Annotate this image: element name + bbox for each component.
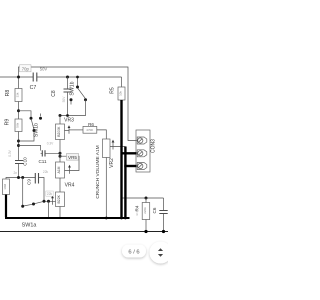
svg-text:C11: C11 — [38, 159, 47, 164]
value VR3 B200K — [57, 126, 61, 137]
value 2n at C10 — [14, 171, 18, 175]
label R9 — [5, 119, 11, 126]
thick bus wire 2 (VR2 wiper / CON3 pin3 to rail) — [124, 147, 136, 219]
svg-text:470K: 470K — [86, 128, 93, 132]
svg-text:VR5: VR5 — [68, 155, 77, 160]
svg-text:VR3: VR3 — [64, 118, 74, 124]
potentiometer VR5 wiper — [60, 156, 79, 174]
potentiometer VR3 body — [56, 116, 65, 140]
svg-text:C6: C6 — [152, 207, 157, 213]
wire net B (input rail y=77) — [0, 76, 122, 78]
page stepper button — [150, 242, 172, 264]
thick bus wire 1 (R5 bottom to rail, taps: pin2, net D) — [121, 100, 137, 218]
label R4 — [135, 205, 140, 211]
svg-text:R5: R5 — [110, 87, 116, 94]
svg-text:CON3: CON3 — [151, 139, 157, 153]
svg-text:0.3V: 0.3V — [47, 141, 54, 145]
resistor R7 (10M input) — [3, 179, 10, 195]
capacitor C10 — [15, 161, 24, 178]
potentiometer VR3 wiper — [65, 125, 84, 134]
svg-text:CRUNCH VOLUME A1M: CRUNCH VOLUME A1M — [95, 145, 101, 198]
svg-text:R4: R4 — [135, 205, 140, 211]
wire switch to VR3 top (y=115.5) — [60, 100, 86, 116]
svg-text:C9: C9 — [27, 179, 32, 185]
svg-text:VR4: VR4 — [65, 183, 75, 189]
label C6 — [152, 207, 157, 213]
svg-text:10k: 10k — [119, 91, 123, 96]
svg-text:22k: 22k — [43, 170, 49, 174]
wire dotB to C11 — [19, 146, 41, 151]
wire net C9 top (y=177.5) — [6, 178, 44, 202]
potentiometer VR2 wiper — [110, 140, 125, 150]
value R7 10M — [3, 183, 7, 189]
CON3 pin 1 — [137, 137, 147, 144]
svg-text:C7: C7 — [30, 85, 37, 91]
label C9 — [27, 179, 32, 185]
ground rail junction dots — [105, 217, 127, 220]
resistor R8 — [15, 77, 22, 119]
wire net D (y=198 to R4/C6) — [122, 197, 164, 199]
svg-text:SW1a: SW1a — [22, 223, 37, 229]
node junction VR3 top — [59, 114, 69, 117]
CON3 pin 3 — [137, 163, 147, 170]
svg-text:50V: 50V — [62, 96, 66, 103]
label C11 — [38, 159, 47, 164]
node junction SW1b-top stub — [76, 76, 79, 79]
ground return junction dots R4 / C6 — [144, 230, 165, 233]
value 4n7 at C6 — [135, 211, 139, 216]
potentiometer VR4 wiper — [44, 195, 56, 204]
svg-text:70p: 70p — [22, 67, 30, 72]
wire SW1a node to rail — [48, 201, 50, 218]
svg-text:A1M: A1M — [57, 166, 61, 173]
svg-text:10M: 10M — [3, 183, 7, 189]
node junction C11/pot column — [59, 152, 62, 155]
label SW1b middle — [34, 123, 40, 137]
value R9 1M — [16, 122, 20, 127]
page indicator pill 6/6 — [122, 245, 146, 258]
node junction R4 top — [145, 197, 148, 200]
node junction C8 top — [66, 76, 69, 79]
svg-text:SW1b: SW1b — [34, 123, 40, 137]
value R8 33k — [16, 92, 20, 97]
ground return line (bottom, full width) — [0, 231, 168, 233]
label VR5 — [67, 154, 79, 161]
svg-text:B200K: B200K — [57, 126, 61, 137]
svg-text:33k: 33k — [16, 92, 20, 97]
label VR3 — [64, 118, 74, 124]
node junction VR5 wiper loop — [59, 155, 62, 158]
node junction wireA/wireB — [17, 76, 20, 79]
value 50V at SW1b top — [62, 96, 66, 103]
CON3 pin 2 — [137, 150, 147, 157]
label R6 — [88, 122, 94, 127]
value 22k at C9 — [43, 170, 49, 174]
switch SW1a — [23, 178, 44, 207]
value 22k at VR4 — [46, 191, 54, 196]
capacitor C9 — [35, 173, 38, 184]
value 0.3V left — [8, 149, 12, 156]
potentiometer VR5 body — [56, 140, 65, 179]
svg-text:C8: C8 — [51, 90, 57, 97]
node junction A (SW1b feed) — [17, 140, 20, 143]
value 0.3V mid — [47, 141, 54, 145]
resistor R4 — [142, 198, 150, 232]
value R5 10k — [119, 91, 123, 96]
label C8 — [51, 90, 57, 97]
value R6 470K — [86, 128, 93, 132]
svg-text:B22K: B22K — [57, 194, 61, 203]
label VR4 — [65, 183, 75, 189]
potentiometer VR2 body — [103, 139, 111, 158]
svg-text:SW1b: SW1b — [70, 81, 76, 95]
capacitor C6 — [159, 198, 167, 232]
wire VR2 bottom leg — [105, 158, 107, 219]
node junction R8/R9 — [17, 109, 20, 112]
svg-text:4n7: 4n7 — [135, 211, 139, 216]
svg-text:56k: 56k — [16, 122, 20, 127]
thick wire R7 to ground rail — [5, 195, 7, 218]
value VR5 A1M — [57, 166, 61, 173]
capacitor C7 — [33, 73, 37, 82]
node junction B (C11 feed) — [17, 144, 20, 147]
value R4 220k — [143, 207, 147, 214]
resistor R9 — [15, 119, 22, 161]
label R8 — [5, 90, 11, 97]
ground rail — [5, 217, 130, 219]
resistor R5 — [118, 77, 125, 100]
label VR2 — [109, 158, 115, 168]
svg-text:VR2: VR2 — [109, 158, 115, 168]
wire net A (top loop y=67 to CON3 pin1) — [19, 67, 137, 141]
potentiometer VR4 body — [56, 178, 65, 218]
svg-text:R9: R9 — [5, 119, 11, 126]
switch SW1b (middle section) — [19, 111, 41, 141]
resistor R6 — [83, 126, 106, 139]
value label 50V — [40, 67, 48, 72]
svg-text:50V: 50V — [40, 67, 48, 72]
value label 70p — [20, 65, 32, 72]
value VR4 B22K — [57, 194, 61, 203]
svg-text:220k: 220k — [143, 207, 147, 214]
label CRUNCH VOLUME A1M — [95, 145, 101, 198]
svg-text:2n: 2n — [14, 171, 18, 175]
svg-text:0.3V: 0.3V — [8, 149, 12, 156]
svg-text:R8: R8 — [5, 90, 11, 97]
label SW1b top — [70, 81, 76, 95]
label R5 — [110, 87, 116, 94]
svg-text:22k: 22k — [47, 192, 53, 196]
switch SW1b (top section) — [71, 77, 85, 105]
capacitor C11 — [41, 150, 60, 156]
label C7 — [30, 85, 37, 91]
node junction C10 bottom — [17, 176, 20, 179]
capacitor C8 — [64, 77, 72, 116]
svg-text:6 / 6: 6 / 6 — [128, 249, 139, 255]
node junction SW1a drop — [21, 176, 24, 179]
label CON3 — [151, 139, 157, 153]
svg-text:R6: R6 — [88, 122, 94, 127]
label SW1a — [22, 223, 37, 229]
label C10 — [23, 157, 28, 166]
connector CON3 box — [136, 130, 150, 172]
svg-text:C10: C10 — [23, 157, 28, 166]
